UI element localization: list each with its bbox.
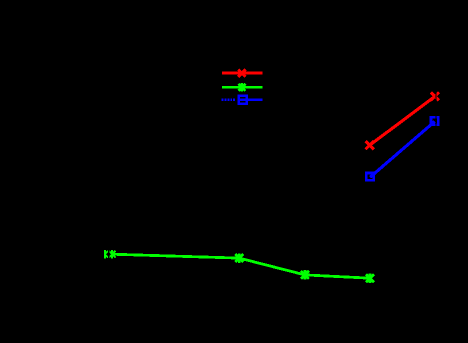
legend red sample line	[222, 72, 263, 75]
plot right border line (black overdraw)	[435, 45, 436, 300]
blue data square marker left	[366, 173, 373, 180]
legend blue dotted sample segment	[222, 98, 235, 101]
green asterisk marker point 5	[366, 274, 374, 283]
red data X marker right	[431, 92, 439, 100]
gap between first two green markers (black overdraw)	[108, 248, 110, 262]
legend green asterisk marker	[238, 83, 245, 92]
plot left border clip (black overdraw)	[0, 180, 104, 310]
legend red X marker	[238, 69, 245, 76]
green data polyline	[112, 254, 370, 278]
legend blue solid sample segment	[240, 98, 263, 101]
blue data square marker right	[431, 117, 438, 124]
green asterisk marker point 1	[105, 250, 108, 258]
green asterisk marker point 4	[301, 270, 309, 279]
blue data line	[370, 122, 435, 178]
green asterisk marker point 3	[235, 253, 243, 262]
red data X marker left	[366, 141, 374, 149]
red data line	[370, 96, 435, 145]
legend green sample line	[222, 86, 263, 89]
green asterisk marker point 2	[109, 250, 116, 258]
legend blue square marker	[239, 96, 247, 104]
